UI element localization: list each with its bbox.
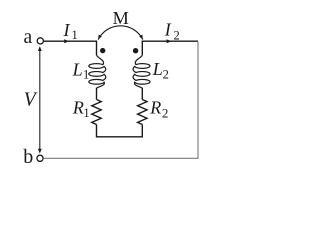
terminal a	[37, 38, 43, 44]
svg-text:R: R	[149, 98, 161, 118]
wire: a to left branch corner	[44, 40, 97, 42]
svg-text:M: M	[113, 8, 129, 28]
polarity dot left	[100, 48, 105, 53]
resistor R1 zigzag	[92, 100, 101, 125]
wire: R2 to L2	[141, 88, 143, 100]
current arrow I1	[64, 39, 69, 43]
svg-text:1: 1	[83, 67, 89, 81]
wire: R1 down, bottom rung, up to R2	[97, 125, 143, 137]
svg-text:2: 2	[174, 29, 180, 43]
svg-text:a: a	[24, 27, 33, 48]
terminal b	[37, 155, 43, 161]
svg-text:L: L	[152, 59, 163, 79]
svg-text:R: R	[72, 98, 84, 118]
current arrow I2	[167, 39, 172, 43]
svg-text:2: 2	[163, 67, 169, 81]
wire: left branch top vertical	[96, 41, 98, 56]
polarity dot right	[133, 48, 138, 53]
inductor L1 coil	[89, 55, 106, 88]
wire: L1 to R1	[96, 88, 98, 100]
svg-text:I: I	[164, 19, 172, 39]
svg-text:1: 1	[83, 106, 89, 120]
wire: right branch corner to right edge	[142, 40, 198, 42]
mutual inductance arc M	[98, 26, 143, 40]
svg-text:V: V	[24, 90, 38, 111]
wire: bottom return b to right edge	[43, 157, 198, 159]
wire: right edge vertical (return)	[197, 42, 199, 158]
resistor R2 zigzag	[138, 100, 147, 125]
svg-text:b: b	[23, 146, 33, 168]
voltage arrow V (double headed)	[39, 48, 41, 153]
svg-text:I: I	[63, 20, 71, 40]
inductor L2 coil	[133, 55, 150, 88]
svg-text:2: 2	[162, 105, 169, 120]
svg-text:L: L	[72, 60, 83, 80]
wire: right branch top vertical	[141, 41, 143, 56]
svg-text:1: 1	[72, 28, 78, 42]
